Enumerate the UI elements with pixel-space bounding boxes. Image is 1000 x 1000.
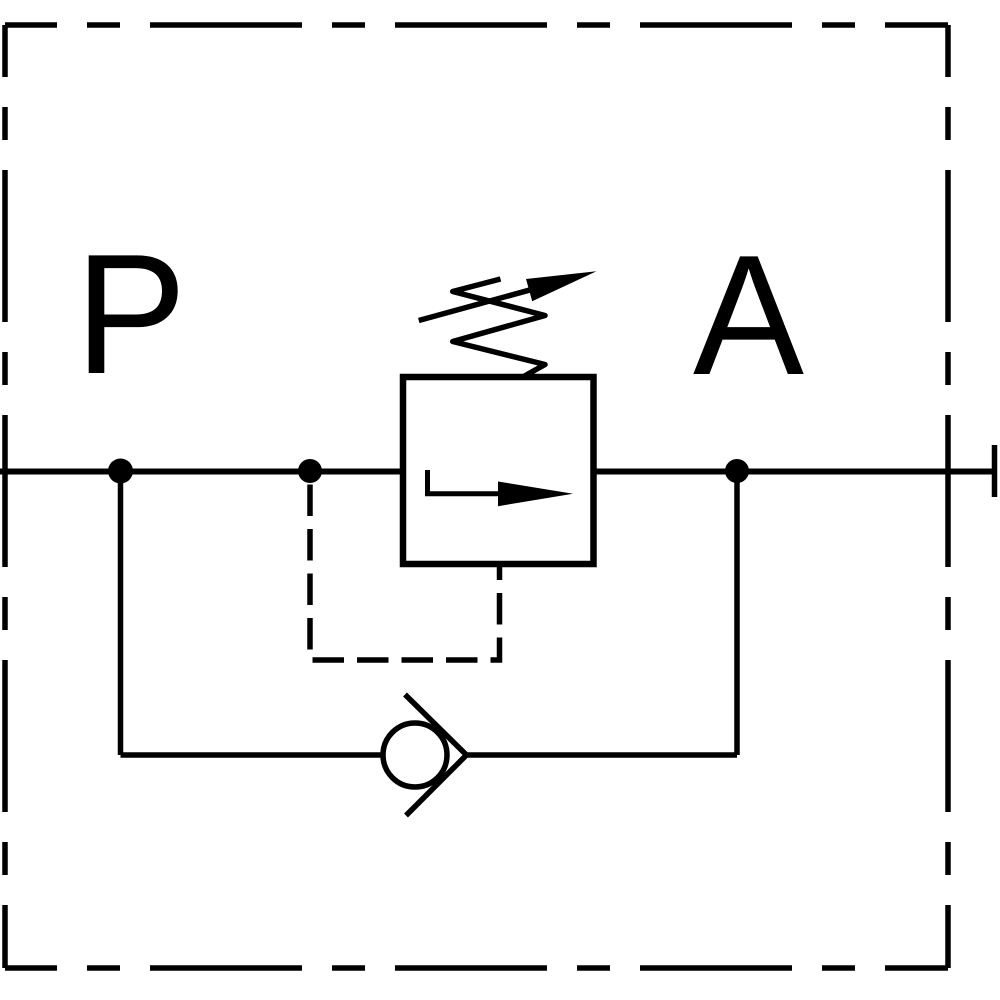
svg-text:P: P xyxy=(75,219,187,410)
svg-text:A: A xyxy=(693,220,804,411)
